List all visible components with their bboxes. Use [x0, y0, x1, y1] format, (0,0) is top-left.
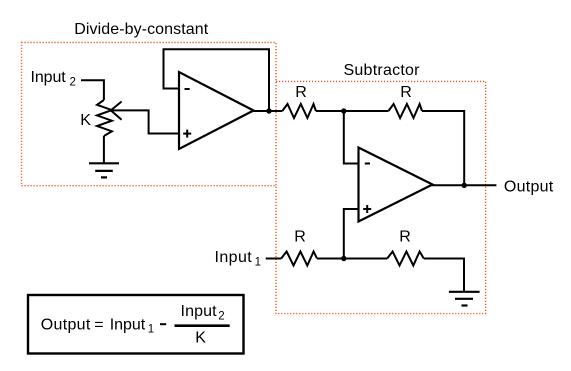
wire: node A down to U2 inverting input — [344, 111, 359, 164]
wire: R1 to node A — [316, 110, 344, 112]
wire: R4 to ground — [424, 259, 464, 292]
svg-text:Input: Input — [181, 303, 218, 320]
svg-text:Subtractor: Subtractor — [344, 62, 421, 79]
op-amp U2 (subtractor) — [359, 148, 433, 222]
formula fraction: Input2 over K — [175, 303, 230, 347]
svg-text:2: 2 — [218, 311, 224, 323]
dashed block boundary: Subtractor box — [276, 81, 486, 313]
svg-text:K: K — [195, 330, 206, 347]
svg-text:2: 2 — [70, 77, 76, 89]
node junction dot at U2 output — [462, 183, 467, 188]
op-amp U1 minus sign — [185, 88, 190, 90]
formula text: Output = Input1 - — [41, 316, 166, 335]
wire: U2 output to Output terminal — [431, 184, 496, 186]
ground (divide-by-constant) — [89, 163, 119, 177]
svg-text:R: R — [399, 228, 411, 245]
svg-text:Input: Input — [110, 316, 146, 333]
op-amp U2 minus sign — [365, 163, 370, 165]
op-amp U1 (divide-by-constant buffer) — [179, 72, 254, 149]
ground (subtractor) — [449, 292, 480, 306]
svg-text:Input: Input — [31, 69, 67, 86]
wire: node B up to U2 non-inverting input — [344, 209, 359, 259]
svg-text:Output: Output — [504, 178, 554, 195]
formula box frame — [28, 295, 244, 354]
resistor R4 (bottom right) — [387, 252, 424, 266]
svg-text:1: 1 — [148, 324, 154, 336]
svg-text:K: K — [80, 112, 91, 129]
node Input1 label — [215, 249, 262, 268]
svg-text:Divide-by-constant: Divide-by-constant — [74, 21, 209, 38]
svg-text:R: R — [400, 84, 412, 101]
node B junction dot — [341, 256, 346, 261]
node Input2 label — [31, 69, 76, 89]
wire: wiper to op-amp U1 plus input — [111, 110, 179, 133]
wire: R2 to output node — [422, 111, 464, 185]
node A junction dot — [341, 108, 346, 113]
wire: node B to R4 — [344, 258, 387, 260]
svg-text:Output: Output — [41, 316, 91, 333]
potentiometer K body (zigzag) — [97, 100, 112, 136]
wire: potentiometer bottom lead to ground — [103, 136, 105, 163]
resistor R3 (bottom left) — [281, 252, 317, 266]
svg-text:Input: Input — [215, 249, 253, 266]
op-amp U1 plus sign — [183, 130, 191, 138]
wire: node A to R2 — [344, 110, 389, 112]
wire: Input2 to potentiometer top — [81, 80, 104, 100]
svg-text:R: R — [294, 228, 306, 245]
resistor R2 (top right, feedback) — [388, 104, 422, 118]
wire: U1 output to R1 — [252, 110, 282, 112]
svg-text:1: 1 — [255, 256, 261, 268]
wire: U1 feedback loop (output to inverting input) — [164, 49, 270, 111]
wire: U1 inverting input stub — [164, 88, 180, 90]
wire: Input1 to R3 — [266, 258, 282, 260]
svg-text:=: = — [94, 316, 103, 333]
node junction dot at U1 output — [266, 108, 271, 113]
wire: R3 to node B — [317, 258, 344, 260]
potentiometer wiper arrow — [111, 102, 122, 120]
resistor R1 (top left) — [282, 104, 316, 118]
op-amp U2 plus sign — [363, 205, 371, 213]
svg-text:R: R — [295, 84, 307, 101]
dashed block boundary: Divide-by-constant box — [22, 43, 277, 186]
